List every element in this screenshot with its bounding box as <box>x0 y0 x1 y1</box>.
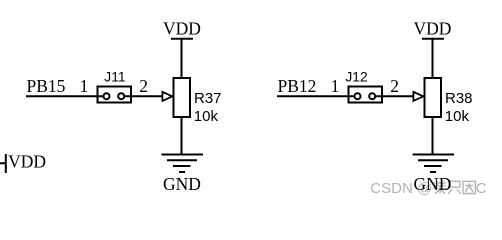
svg-text:1: 1 <box>331 76 340 96</box>
ground bar 3 <box>424 165 442 167</box>
power VDD left-edge <box>0 154 6 173</box>
svg-text:J12: J12 <box>345 69 367 84</box>
jumper J11 pad 2 <box>118 93 124 99</box>
wire R37 to VDD bar <box>181 39 183 78</box>
arrow into R37 <box>162 92 172 101</box>
svg-text:10k: 10k <box>194 108 219 125</box>
svg-text:2: 2 <box>139 76 148 96</box>
svg-text:VDD: VDD <box>414 18 452 38</box>
wire R38 to VDD bar <box>432 39 434 78</box>
wire R37 to ground <box>181 117 183 155</box>
svg-text:1: 1 <box>80 76 89 96</box>
wire R38 to ground <box>432 117 434 155</box>
wire PB15 to J11 pin1 <box>26 95 107 97</box>
jumper J12 pad 2 <box>369 93 375 99</box>
jumper J11 body <box>98 87 132 103</box>
ground bar 2 <box>167 159 197 161</box>
mou <box>433 181 447 194</box>
svg-text:R37: R37 <box>194 90 222 107</box>
arrow into R38 <box>413 92 423 101</box>
svg-text:10k: 10k <box>445 108 470 125</box>
svg-text:C: C <box>476 180 487 197</box>
jumper J12 body <box>349 87 383 103</box>
jumper J11 pad 1 <box>104 93 110 99</box>
power VDD bar <box>171 38 193 40</box>
ground bar 1 <box>413 154 455 156</box>
resistor R38 body <box>425 78 442 117</box>
svg-text:VDD: VDD <box>163 18 201 38</box>
svg-text:GND: GND <box>414 174 452 194</box>
watermark CSDN <box>370 180 487 197</box>
power VDD bar <box>422 38 444 40</box>
jumper J12 pad 1 <box>355 93 361 99</box>
svg-text:PB12: PB12 <box>278 76 317 96</box>
ground bar 4 <box>430 171 436 173</box>
wire PB12 to J12 pin1 <box>277 95 358 97</box>
svg-text:J11: J11 <box>104 69 125 84</box>
wire J11 pin2 to arrow <box>121 95 162 97</box>
svg-text:PB15: PB15 <box>27 76 66 96</box>
svg-text:VDD: VDD <box>8 152 46 172</box>
svg-text:R38: R38 <box>445 90 473 107</box>
resistor R37 body <box>174 78 191 117</box>
zhi <box>448 181 461 194</box>
ground bar 1 <box>162 154 204 156</box>
svg-text:2: 2 <box>390 76 399 96</box>
wire J12 pin2 to arrow <box>372 95 413 97</box>
yin <box>463 181 475 193</box>
svg-text:GND: GND <box>163 174 201 194</box>
ground bar 3 <box>173 165 191 167</box>
ground bar 4 <box>179 171 185 173</box>
ground bar 2 <box>418 159 448 161</box>
